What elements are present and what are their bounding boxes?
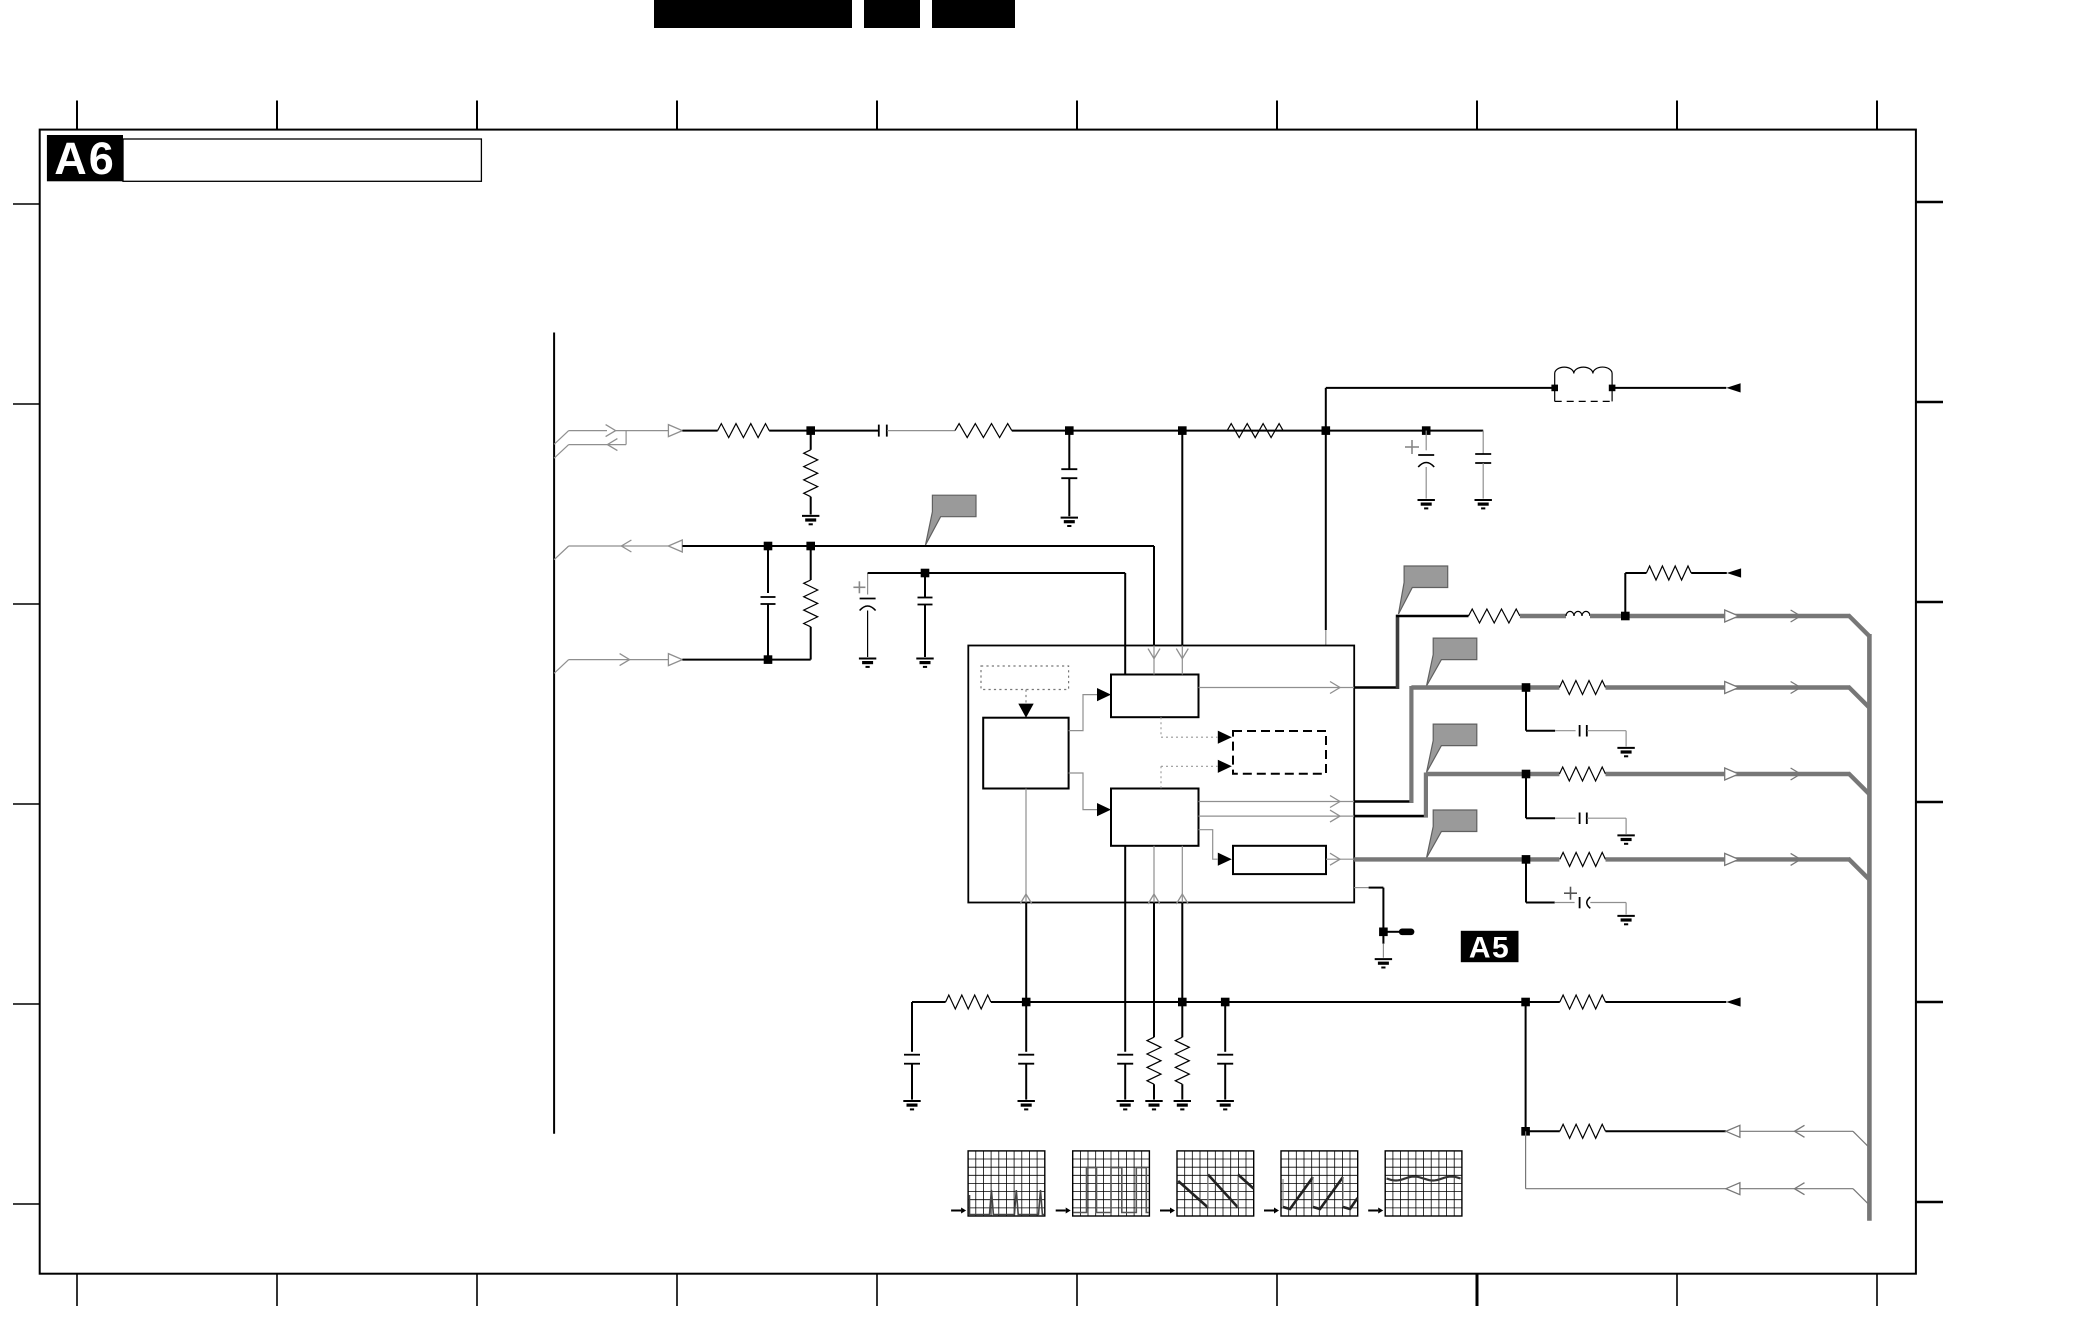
return chevron W3 bbox=[621, 540, 668, 552]
buffer arrow to dashed block 1 bbox=[1218, 731, 1232, 744]
output wire C riser bbox=[1354, 773, 1426, 818]
junction node W1-C2 bbox=[1065, 426, 1074, 435]
open arrow wire A bbox=[1725, 610, 1739, 622]
lower wire 2 bend bbox=[1853, 1189, 1869, 1205]
off-page arrow ferrite bbox=[1726, 383, 1740, 392]
bottom wire segment a bbox=[912, 1001, 946, 1003]
lower wire 1 bend bbox=[1853, 1131, 1869, 1147]
ground below C10 bbox=[1617, 916, 1634, 924]
ground below R2 bbox=[802, 516, 819, 524]
junction node W1-C3 bbox=[1422, 426, 1431, 435]
junction node A bbox=[1621, 612, 1630, 621]
resistor R5 vertical bbox=[804, 546, 818, 660]
wire W4 segment bbox=[682, 659, 810, 661]
chevron lower 2 bbox=[1795, 1183, 1805, 1195]
wire W1 segment c bbox=[887, 430, 955, 432]
resistor R14 bbox=[1526, 995, 1727, 1009]
junction node W5-C7 bbox=[921, 569, 930, 578]
chevron wire C bbox=[1791, 768, 1801, 780]
pin wire control bottom inside U1 bbox=[1020, 789, 1032, 1003]
waveform trace ripple bbox=[1387, 1177, 1461, 1181]
wire H to ground bbox=[1382, 932, 1384, 958]
buffer arrow to output block bbox=[1218, 853, 1232, 866]
capacitor C7 shunt bbox=[918, 573, 933, 657]
wire ferrite left bbox=[1326, 387, 1555, 389]
wire bottom block to output block bbox=[1199, 830, 1218, 860]
ground below C9 bbox=[1617, 835, 1634, 843]
wire D bend to bus bbox=[1848, 858, 1869, 879]
connector entry stub W4 bbox=[554, 660, 668, 674]
pin wire C inside U1 bbox=[1176, 646, 1188, 675]
wire C segment b bbox=[1606, 772, 1850, 776]
open arrow W3 bbox=[668, 540, 682, 552]
open arrow wire D bbox=[1725, 853, 1739, 865]
dashed block inside U1 bbox=[1233, 731, 1326, 774]
wire A segment b bbox=[1520, 614, 1566, 618]
chevron lower 1 bbox=[1795, 1125, 1805, 1137]
callout flag C bbox=[1427, 724, 1477, 772]
left vertical bus wire bbox=[553, 333, 555, 1134]
pin wire G below U1 bbox=[1181, 903, 1183, 1038]
open arrow wire C bbox=[1725, 768, 1739, 780]
connector entry stub wire 2 bbox=[554, 431, 626, 459]
junction node C bbox=[1522, 770, 1531, 779]
resistor R15 bbox=[1560, 1124, 1606, 1138]
pin wire F inside U1 bbox=[1148, 846, 1160, 904]
resistor R1 bbox=[718, 424, 770, 438]
resistor R2 vertical bbox=[804, 431, 818, 515]
junction node bottom-3 bbox=[1221, 998, 1230, 1007]
ground below C12 bbox=[1018, 1101, 1035, 1109]
wire W1 segment a bbox=[682, 430, 717, 432]
off-page arrow bottom bbox=[1726, 997, 1740, 1006]
output wire 2 inside U1 bbox=[1199, 796, 1355, 808]
page border frame bbox=[40, 130, 1916, 1274]
dotted wire to dashed block 1 bbox=[1161, 717, 1218, 737]
ground below R13 bbox=[1174, 1101, 1191, 1109]
plus mark C6 bbox=[853, 581, 865, 593]
left border tick marks bbox=[13, 204, 40, 1204]
plus mark C10 bbox=[1564, 887, 1577, 900]
open arrow lower 2 bbox=[1726, 1183, 1740, 1195]
control block inside U1 bbox=[983, 718, 1068, 789]
wire node D vertical bbox=[1325, 388, 1327, 646]
resistor R4 bbox=[1227, 424, 1283, 438]
capacitor C9 branch bbox=[1526, 774, 1626, 834]
capacitor C11 bbox=[904, 1055, 920, 1100]
waveform trace square bbox=[1074, 1168, 1149, 1213]
plus mark C3 bbox=[1405, 440, 1419, 454]
buffer arrow to dashed block 2 bbox=[1218, 760, 1232, 773]
wire bottom to lower bbox=[1525, 1002, 1527, 1131]
top header redaction bar 3 bbox=[932, 0, 1015, 28]
top border tick marks bbox=[77, 101, 1877, 130]
ground below C4 bbox=[1475, 500, 1492, 508]
dotted link to triangle bbox=[1025, 690, 1027, 704]
link bar bbox=[1383, 929, 1414, 936]
capacitor C14 bbox=[1217, 1002, 1233, 1100]
bottom border tick marks bbox=[77, 1274, 1877, 1306]
wire W1 segment b bbox=[769, 430, 878, 432]
open arrow W1 bbox=[668, 425, 682, 437]
callout flag W3 bbox=[926, 495, 977, 545]
wire lower drop bbox=[1525, 1131, 1527, 1188]
scope graticule 2 bbox=[1056, 1151, 1150, 1216]
resistor R10 bbox=[1560, 852, 1606, 866]
ground below C8 bbox=[1617, 748, 1634, 756]
waveform trace rising sawtooth bbox=[1283, 1177, 1358, 1209]
junction node lower bbox=[1521, 1127, 1530, 1136]
resistor R8 bbox=[1559, 681, 1605, 695]
signal chevron W4 bbox=[620, 654, 630, 666]
wire B bend to bus bbox=[1848, 687, 1869, 708]
capacitor C6 polarized bbox=[860, 573, 876, 657]
wire W1 segment d bbox=[1012, 430, 1183, 432]
lower wire 1 bbox=[1526, 1130, 1560, 1132]
top processing block inside U1 bbox=[1111, 675, 1199, 718]
wire C bend to bus bbox=[1848, 773, 1869, 794]
ground below C14 bbox=[1217, 1101, 1234, 1109]
bottom processing block inside U1 bbox=[1111, 789, 1199, 846]
junction node W1-D bbox=[1322, 426, 1331, 435]
ground below H bbox=[1375, 959, 1392, 967]
inductor L1 ferrite bead bbox=[1551, 367, 1615, 401]
capacitor C8 branch bbox=[1526, 688, 1626, 747]
inductor L2 bbox=[1566, 611, 1590, 616]
sheet label A6 box bbox=[47, 133, 123, 184]
pin wire F below U1 bbox=[1153, 903, 1155, 1038]
mute triangle inside U1 bbox=[1018, 704, 1033, 718]
lower wire 1 segment bbox=[1606, 1130, 1726, 1132]
junction node bottom-1 bbox=[1022, 998, 1031, 1007]
resistor R3 bbox=[955, 424, 1012, 438]
chevron wire B bbox=[1791, 682, 1801, 694]
wire A segment c bbox=[1590, 614, 1850, 618]
waveform trace pulses bbox=[970, 1190, 1045, 1215]
resistor R6 bbox=[1469, 609, 1520, 623]
ground below C13 bbox=[1117, 1101, 1134, 1109]
wire D segment b bbox=[1606, 857, 1850, 861]
wire D segment a bbox=[1354, 857, 1559, 861]
top header redaction bar 2 bbox=[864, 0, 920, 28]
right border tick marks bbox=[1916, 202, 1943, 1202]
output wire 3 inside U1 bbox=[1199, 810, 1355, 822]
wire B segment b bbox=[1606, 685, 1850, 689]
pin wire E below U1 bbox=[1124, 903, 1126, 1052]
pin wire H of U1 bbox=[1354, 888, 1383, 932]
wire A bend to bus bbox=[1848, 615, 1869, 636]
pin wire B inside U1 bbox=[1148, 646, 1160, 675]
wire W3 to IC pin B bbox=[1153, 546, 1155, 646]
off-page arrow branch A bbox=[1727, 568, 1741, 577]
ground below C3 bbox=[1418, 500, 1435, 508]
junction node B bbox=[1522, 683, 1531, 692]
callout flag B bbox=[1427, 638, 1477, 686]
wire W5 bbox=[868, 573, 1126, 646]
top header redaction bar 1 bbox=[654, 0, 852, 28]
connector entry stub W3 bbox=[554, 546, 621, 560]
bottom wire segment b bbox=[991, 1001, 1526, 1003]
capacitor C10 polarized branch bbox=[1526, 859, 1626, 914]
return arrow chevron W2 bbox=[607, 439, 617, 451]
title placeholder box bbox=[123, 139, 481, 181]
ground below C7 bbox=[916, 659, 933, 667]
dotted wire to dashed block 2 bbox=[1161, 766, 1218, 788]
svg-text:A5: A5 bbox=[1469, 932, 1510, 965]
wire W3 segment bbox=[682, 545, 1154, 547]
junction node W3-R5 bbox=[806, 542, 815, 551]
output wire B riser bbox=[1354, 686, 1411, 803]
wire C segment a bbox=[1426, 772, 1560, 776]
buffer arrow to top block bbox=[1097, 688, 1111, 701]
connector entry stub wire 1 bbox=[554, 431, 607, 445]
resistor R11 bbox=[946, 995, 991, 1009]
capacitor C12 bbox=[1018, 1002, 1034, 1100]
sheet label A5 box bbox=[1461, 931, 1519, 965]
signal arrow chevron W1 bbox=[606, 425, 669, 437]
junction node W1-R2 bbox=[806, 426, 815, 435]
wire W1 to IC pin C bbox=[1181, 431, 1183, 646]
wire B segment a bbox=[1411, 685, 1559, 689]
output wire A riser bbox=[1354, 615, 1397, 689]
capacitor C13 bbox=[1117, 1055, 1133, 1100]
ground below C2 bbox=[1061, 518, 1078, 526]
dotted reference box inside U1 bbox=[981, 666, 1069, 690]
capacitor C2 shunt bbox=[1061, 431, 1077, 517]
wire control to top block bbox=[1069, 695, 1097, 731]
scope graticule 1 bbox=[951, 1151, 1045, 1216]
junction node W1-pinC bbox=[1178, 426, 1187, 435]
pin wire G inside U1 bbox=[1176, 846, 1188, 904]
op-amp U1 IC outline bbox=[968, 646, 1354, 903]
branch resistor R7 bbox=[1625, 566, 1727, 616]
resistor R9 bbox=[1559, 767, 1605, 781]
wire W1 segment f bbox=[1326, 430, 1483, 432]
junction node W3-C5 bbox=[764, 542, 773, 551]
callout flag D bbox=[1427, 810, 1477, 858]
chevron wire A bbox=[1791, 610, 1801, 622]
ground below R12 bbox=[1145, 1101, 1162, 1109]
chevron wire D bbox=[1791, 853, 1801, 865]
wire ferrite right bbox=[1612, 387, 1726, 389]
output block inside U1 bbox=[1233, 846, 1326, 874]
wire control to bottom block bbox=[1069, 773, 1097, 810]
scope graticule 3 bbox=[1160, 1151, 1254, 1216]
open arrow W4 bbox=[668, 654, 682, 666]
scope graticule 5 bbox=[1368, 1151, 1462, 1216]
lower wire 2 grey segment bbox=[1740, 1188, 1853, 1190]
buffer arrow to bottom block bbox=[1097, 803, 1111, 816]
capacitor C1 series bbox=[879, 425, 887, 437]
wire W1 segment e bbox=[1182, 430, 1326, 432]
output wire 4 inside U1 bbox=[1326, 853, 1354, 865]
junction node H bbox=[1379, 928, 1388, 937]
resistor R12 vertical bbox=[1147, 1037, 1161, 1099]
open arrow lower 1 bbox=[1726, 1125, 1740, 1137]
capacitor C3 polarized bbox=[1418, 431, 1434, 499]
callout flag A bbox=[1399, 566, 1448, 614]
capacitor C4 shunt bbox=[1475, 431, 1491, 499]
lower wire 1 grey segment bbox=[1740, 1130, 1853, 1132]
svg-text:A6: A6 bbox=[54, 133, 116, 184]
wire A segment a bbox=[1396, 615, 1469, 617]
scope graticule 4 bbox=[1264, 1151, 1358, 1216]
resistor R13 vertical bbox=[1175, 1037, 1189, 1099]
open arrow wire B bbox=[1725, 682, 1739, 694]
ground below C6 bbox=[859, 659, 876, 667]
vertical bus wire right bbox=[1867, 634, 1872, 1221]
pin wire A inside U1 bbox=[1124, 646, 1126, 675]
junction node W4-C5 bbox=[764, 655, 773, 664]
ground below C11 bbox=[903, 1101, 920, 1109]
bottom wire left corner bbox=[911, 1002, 913, 1052]
lower wire 2 bbox=[1526, 1188, 1726, 1190]
pin wire E inside U1 bbox=[1124, 846, 1126, 903]
output wire 1 inside U1 bbox=[1199, 682, 1355, 694]
junction node bottom-4 bbox=[1521, 998, 1530, 1007]
capacitor C5 shunt bbox=[761, 546, 776, 660]
waveform trace falling sawtooth bbox=[1178, 1175, 1253, 1208]
junction node bottom-2 bbox=[1178, 998, 1187, 1007]
junction node D bbox=[1522, 855, 1531, 864]
